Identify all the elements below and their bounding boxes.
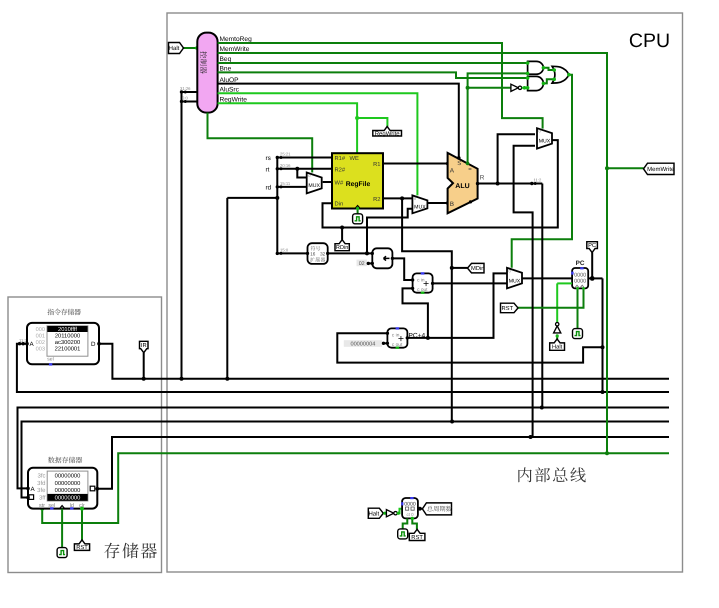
svg-text:MemWrite: MemWrite (647, 166, 675, 173)
PC+4 adder (387, 328, 407, 347)
wire: zero to NOT gate (468, 87, 511, 89)
MDin tag (468, 263, 485, 273)
svg-text:5:0: 5:0 (182, 96, 188, 101)
wire: RegDst MUX out to W# (323, 181, 332, 183)
wire: const 4 to adder (382, 342, 387, 344)
svg-text:CPU: CPU (629, 30, 670, 52)
svg-text:MUX: MUX (414, 205, 426, 211)
controller vertical label 控制器 (200, 51, 207, 73)
svg-text:Halt: Halt (552, 344, 563, 351)
svg-text:22100001: 22100001 (55, 346, 81, 353)
ROM sel blue pin (49, 363, 52, 365)
svg-text:15:0: 15:0 (280, 248, 289, 253)
svg-text:RegWrite: RegWrite (375, 130, 401, 137)
svg-text:sel: sel (47, 356, 53, 362)
wire: MemtoReg MUX out to RegFile Din (writeback) (323, 140, 558, 227)
RAM bottom pins (50, 507, 53, 509)
wire: extender out to shifter / ALUSrc mux (328, 252, 373, 254)
svg-text:11:2: 11:2 (534, 178, 543, 183)
node rs tap (277, 157, 332, 159)
wire: PC+4 out to PCSrc MUX in0 (407, 273, 507, 338)
svg-text:25:21: 25:21 (280, 152, 291, 157)
svg-text:rd: rd (266, 184, 272, 191)
svg-text:MDin: MDin (471, 265, 485, 272)
cycle counter (402, 498, 418, 518)
memory outer frame (8, 297, 162, 573)
controller box 控制器 (197, 33, 217, 113)
Halt tag (counter) (368, 508, 383, 518)
svg-text:00000000: 00000000 (55, 480, 81, 487)
clock source (memory) (57, 548, 67, 558)
svg-text:+: + (423, 278, 429, 290)
MemWrite tag (right edge) (644, 163, 675, 174)
wire: MemWrite green bus -> RAM str (42, 453, 669, 523)
RDin tag (335, 240, 349, 251)
svg-text:WE: WE (350, 156, 359, 162)
svg-text:16: 16 (310, 252, 316, 257)
svg-text:0000: 0000 (404, 501, 416, 507)
wire: ALU result R (478, 183, 543, 185)
wire: shamt const to shifter (368, 262, 373, 264)
shift-left-2 shifter (372, 248, 392, 268)
wire: ALU result down to bus3 (541, 184, 543, 408)
Halt tag (controller input) (169, 43, 184, 54)
PC register (572, 268, 588, 288)
svg-text:000: 000 (36, 327, 45, 333)
wire: RegFile clock (357, 209, 359, 214)
wire: Halt to controller (183, 47, 198, 49)
svg-text:PC: PC (588, 242, 596, 249)
wire: AND1 out to OR (543, 68, 553, 70)
svg-text:Din: Din (335, 201, 344, 208)
MemtoReg MUX (537, 128, 552, 148)
wire: ALU result up to MemtoReg MUX in0 (498, 134, 535, 183)
NOT gate (Halt invert, pointing up) (554, 326, 561, 333)
wire MemtoReg (to MemtoReg MUX select) (218, 43, 543, 129)
wire: PC clr from RST (517, 288, 584, 307)
svg-text:D: D (91, 341, 96, 348)
svg-text:str: str (39, 503, 45, 509)
svg-text:IR: IR (141, 343, 147, 349)
svg-text:00000000: 00000000 (55, 472, 81, 479)
node rt tap (277, 168, 332, 170)
OR gate (branch taken) (552, 66, 569, 83)
svg-text:Halt: Halt (169, 45, 180, 52)
wire: R1 to ALU A (383, 163, 448, 165)
wire: rt branch to RegDst MUX (297, 169, 306, 178)
RST tag (counter) (409, 529, 425, 540)
wire RegDst (controller bottom to RegDst MUX select) (208, 113, 313, 173)
cycle count tag 总周期数 (422, 503, 451, 515)
wire: PC value net (PC out -> PC+4 adder & ROM address) (588, 277, 602, 279)
wire: IR tag to instruction bus (143, 353, 145, 379)
wire: PC tag down to PC out net (591, 253, 593, 279)
wire: branch adder B from PC+4 (403, 288, 428, 338)
wire: ALU zero flag up to gates (468, 73, 528, 163)
RegWrite tag (373, 127, 402, 137)
AND gate 1 (Beq & zero) (528, 61, 544, 74)
wire MemWrite branch to tag (607, 167, 644, 169)
svg-text:W#: W# (335, 181, 344, 187)
wire: instruction field vertical (rs/rt/rd/imm) (226, 198, 228, 379)
svg-text:RDin: RDin (336, 244, 348, 251)
clock source (PC) (573, 329, 583, 339)
wire AluOP (3-bit bus to ALU S) (218, 84, 459, 158)
wire: Halt tag to NOT (556, 334, 558, 339)
svg-text:00000000: 00000000 (55, 487, 81, 494)
svg-text:Halt: Halt (368, 510, 379, 517)
wire MemWrite (down right side to green bus) (218, 53, 607, 453)
svg-text:3ff: 3ff (39, 495, 46, 502)
wire: branch adder out to PCSrc MUX in1 (433, 282, 507, 284)
wire RegWrite branch to tag (357, 118, 387, 127)
svg-text:32: 32 (320, 252, 326, 257)
svg-text:MUX: MUX (539, 139, 551, 145)
svg-text:02: 02 (359, 261, 365, 267)
PCSrc MUX (507, 268, 522, 289)
svg-text:003: 003 (36, 347, 45, 353)
svg-text:ct 0: ct 0 (406, 512, 414, 517)
IR tag (140, 341, 149, 352)
svg-text:R2: R2 (373, 196, 380, 203)
svg-text:B: B (450, 201, 454, 208)
svg-text:S: S (457, 160, 461, 167)
svg-text:20110000: 20110000 (55, 333, 80, 340)
svg-text:R: R (480, 174, 485, 181)
RST tag (memory) (74, 540, 89, 551)
svg-text:RST: RST (411, 534, 423, 541)
svg-text:+: + (398, 333, 404, 345)
node imm tap to extender (277, 252, 307, 254)
svg-text:A: A (450, 167, 455, 174)
ALU (448, 153, 478, 213)
wire: RAM clr from RST (81, 509, 83, 540)
Halt tag (near PC) (550, 339, 565, 350)
clock source (counter) (398, 529, 408, 539)
svg-text:15:11: 15:11 (280, 181, 291, 186)
wire RegWrite (to RegFile WE) (218, 103, 358, 153)
wire Beq (to AND1) (218, 62, 528, 64)
svg-text:RST: RST (76, 544, 88, 551)
instruction memory ROM (27, 323, 99, 364)
svg-text:R1: R1 (373, 162, 380, 168)
svg-text:3fe: 3fe (37, 487, 46, 494)
wire: OR output to PCSrc MUX select (512, 75, 572, 268)
wire: counter out to tag (418, 508, 423, 510)
wire: RAM clock (61, 509, 63, 548)
RegFile clock pin (355, 206, 360, 209)
wire: PCSrc MUX out to PC D (522, 277, 572, 279)
svg-text:MUX: MUX (509, 278, 521, 284)
data memory RAM (28, 468, 97, 509)
wire: ALUSrc MUX out to ALU B (427, 202, 447, 204)
wire: counter clock (403, 518, 408, 529)
constant 00000004 (344, 340, 382, 347)
label 内部总线 (518, 467, 531, 482)
label 指令存储器 (47, 309, 54, 315)
svg-text:002: 002 (36, 340, 45, 346)
svg-text:rt: rt (266, 166, 270, 173)
clock source (RegFile) (353, 214, 363, 224)
wire: instruction vertical to controller taps (181, 92, 183, 379)
label 数据存储器 (48, 457, 55, 463)
wire Bne (to AND2) (218, 72, 528, 78)
svg-text:20:16: 20:16 (280, 163, 291, 168)
wire: bus3 (ALU result -> RAM A) (18, 408, 670, 489)
svg-text:RegFile: RegFile (346, 181, 371, 188)
svg-text:2010ffff: 2010ffff (58, 326, 77, 333)
label 存储器 (104, 543, 119, 559)
wire: load data (bus5) up to MemtoReg MUX in1 (514, 146, 535, 437)
RegFile register file (332, 153, 383, 208)
PC output tag (587, 242, 598, 253)
svg-text:R1#: R1# (335, 156, 346, 162)
svg-text:0000: 0000 (574, 279, 586, 285)
svg-text:MUX: MUX (308, 183, 320, 189)
svg-text:PC: PC (576, 260, 585, 267)
svg-text:001: 001 (36, 334, 45, 340)
ALUSrc MUX (412, 195, 427, 213)
NOT gate (counter enable) (386, 510, 393, 517)
wire: AND2 out to OR (543, 79, 553, 83)
svg-text:=: = (468, 167, 472, 173)
wire: R2 to ALUSrc MUX and store data down (383, 197, 412, 199)
wire: address bus2 (PC -> ROM A) (17, 344, 669, 392)
svg-text:R2#: R2# (335, 166, 346, 173)
svg-text:ac300200: ac300200 (55, 339, 80, 346)
wire: PC enable from Halt (inverted) (557, 282, 572, 284)
svg-text:ALU: ALU (455, 183, 469, 190)
svg-text:rs: rs (266, 155, 271, 162)
svg-text:00000000: 00000000 (55, 494, 81, 501)
wire: bus4 (store data -> RAM D left) (22, 422, 670, 498)
node rd tap (277, 186, 306, 188)
RAM contents table (47, 471, 88, 501)
svg-text:00000004: 00000004 (350, 342, 375, 348)
CPU outer frame (167, 13, 683, 572)
wire: counter rst (412, 518, 417, 529)
branch target adder (413, 273, 433, 292)
sign extender 符号扩展器 (308, 243, 328, 264)
svg-text:3fc: 3fc (37, 473, 45, 480)
svg-text:31:26: 31:26 (180, 86, 191, 91)
wire AluSrc (to ALUSrc MUX select) (218, 93, 418, 195)
wire: shifter out to branch adder A (392, 258, 412, 280)
wire: NOT out to counter enable (397, 509, 402, 514)
ROM contents table (47, 326, 88, 356)
RegDst MUX (307, 173, 322, 194)
wire: Halt to NOT (counter) (383, 512, 386, 514)
svg-text:3fd: 3fd (37, 480, 45, 487)
wire: PC clock (577, 288, 579, 328)
NOT gate (zero invert) (511, 84, 518, 91)
AND gate 2 (Bne & !zero) (528, 76, 544, 90)
wire: NOT output to AND2 (522, 87, 528, 89)
constant 02 (shift amount) (357, 260, 367, 267)
RST tag (PC) (501, 303, 519, 313)
wire: instruction bus (ROM D -> bus1) (99, 344, 669, 379)
wire: bus5 (RAM D right -> load data) (97, 437, 669, 489)
wire: RDin tag branch (341, 228, 343, 240)
svg-text:RST: RST (501, 305, 513, 312)
wire: MDin tag branch (452, 267, 468, 269)
